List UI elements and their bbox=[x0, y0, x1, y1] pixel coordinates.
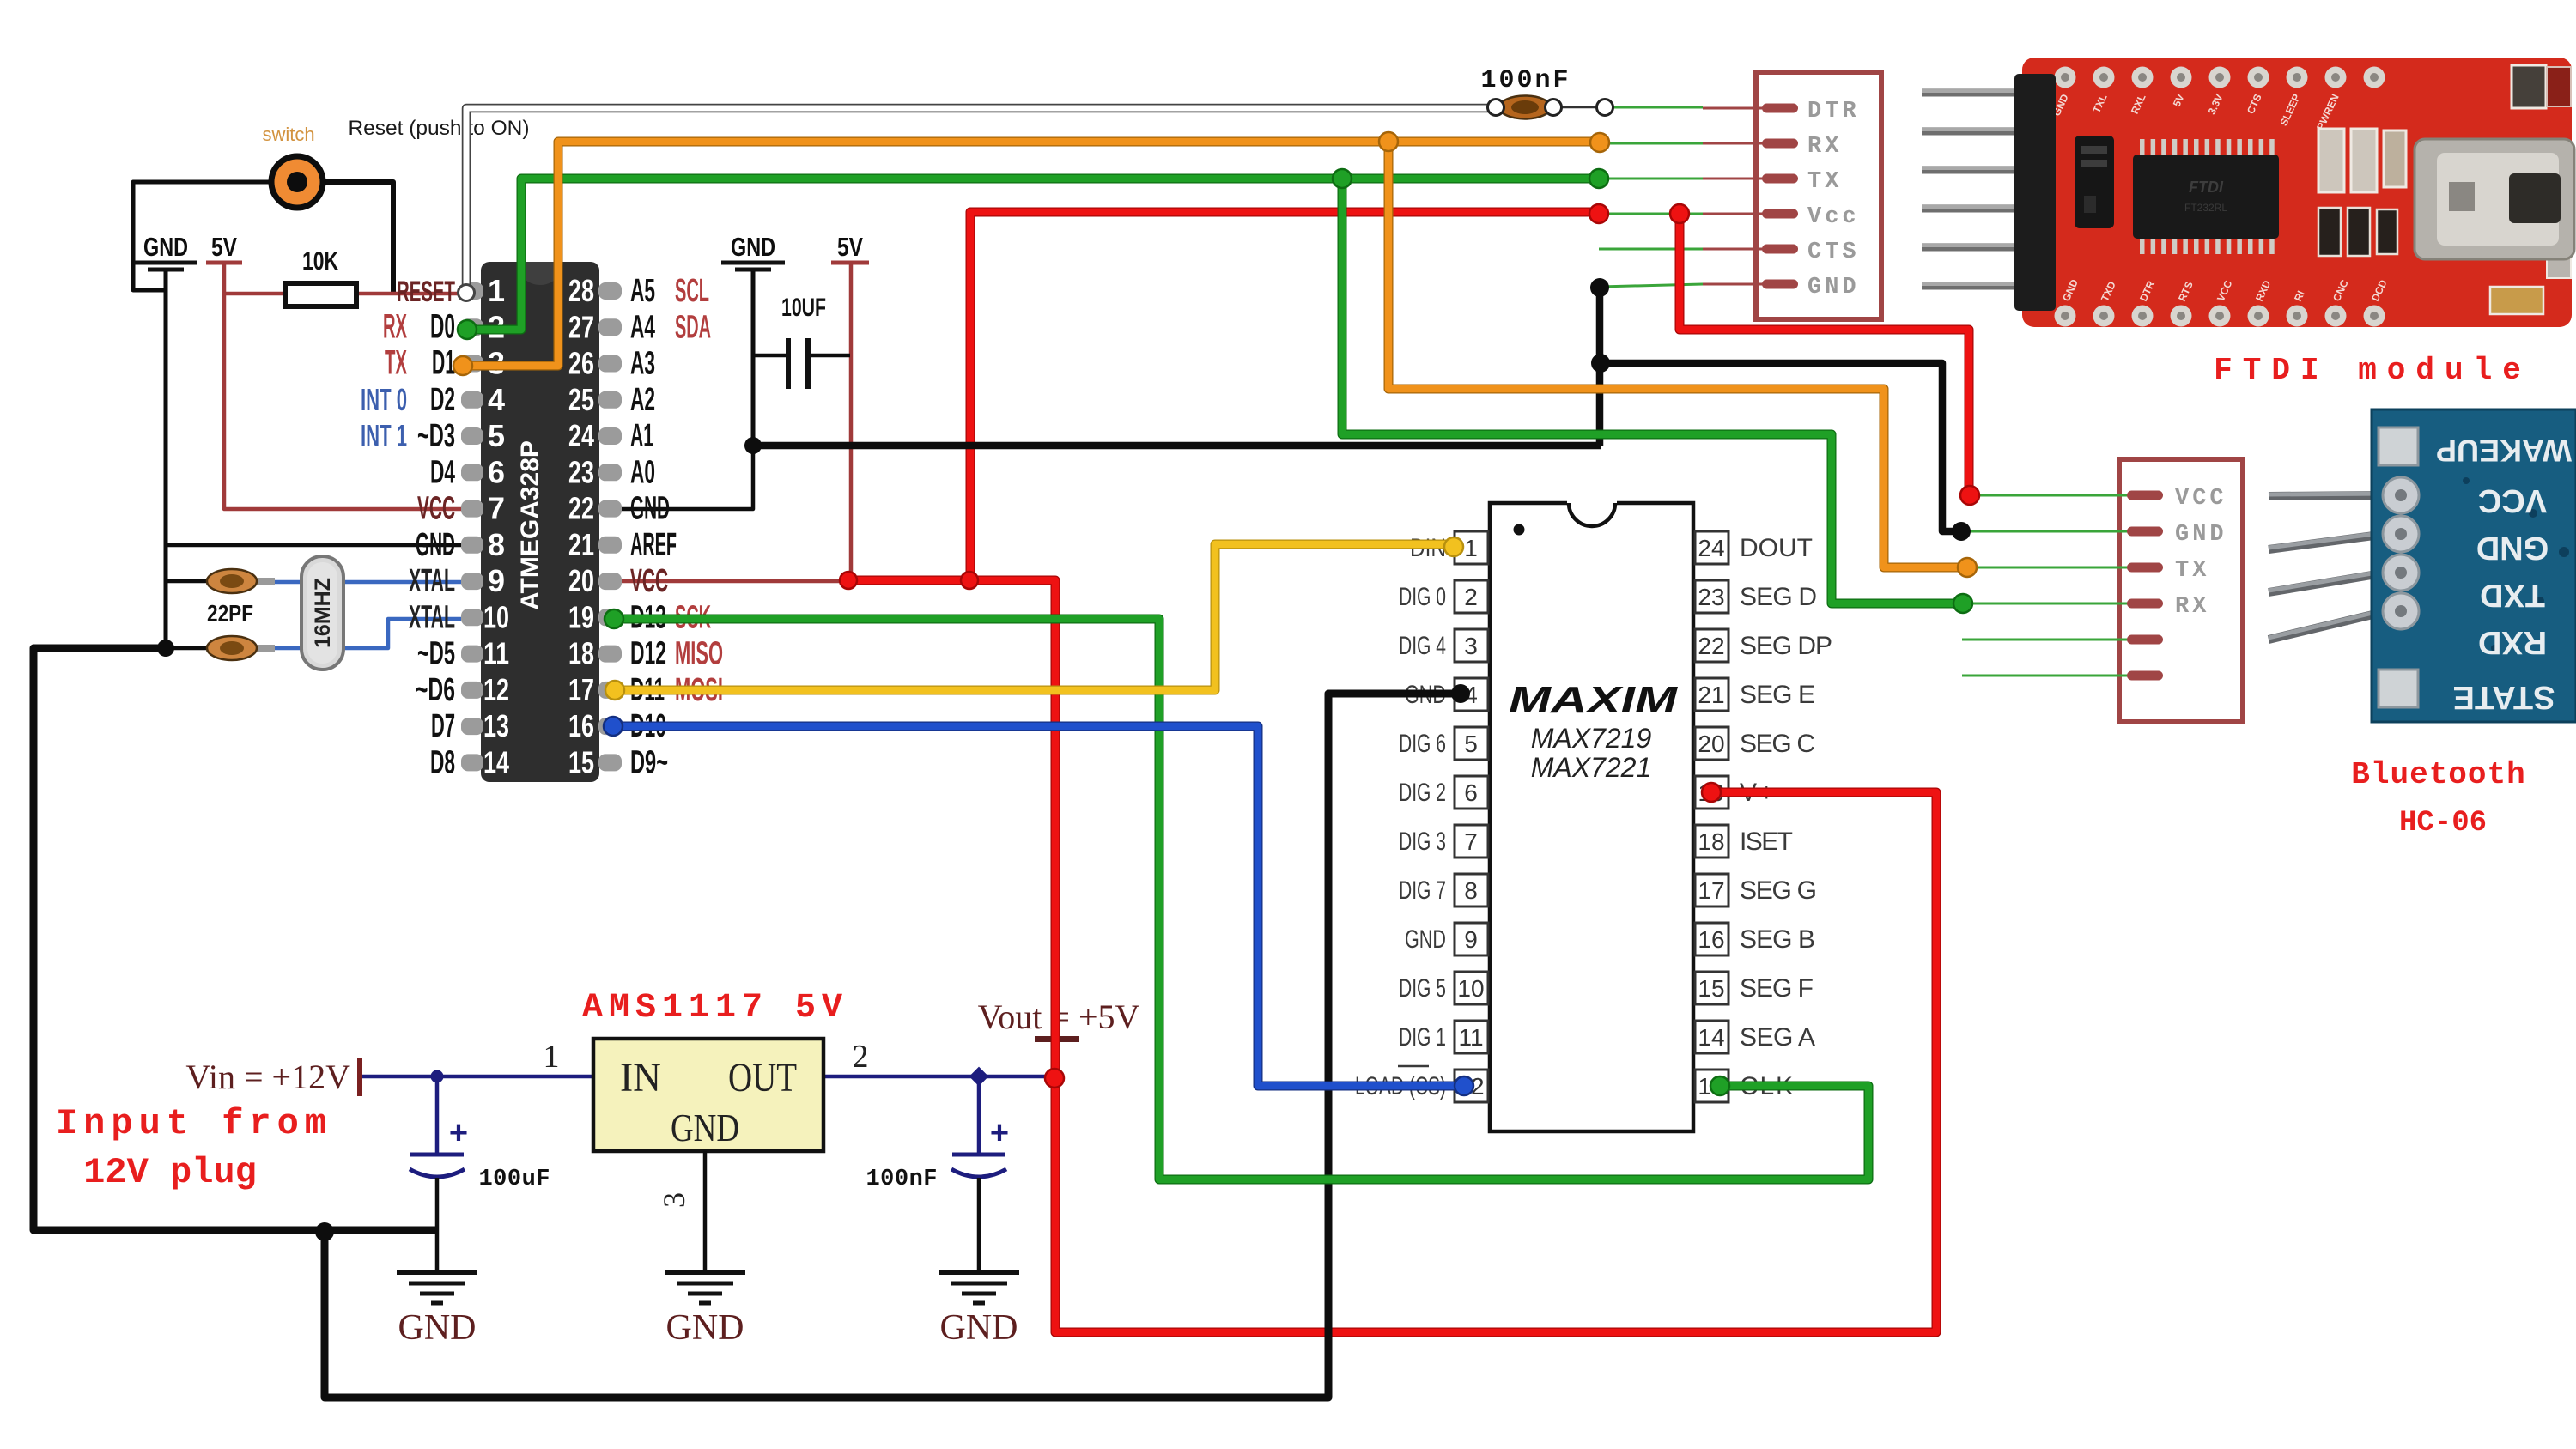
junction: red FTDI branch bbox=[961, 572, 978, 589]
wire: black GND ATMEGA to FTDI GND bbox=[753, 442, 1601, 450]
capacitor C3 10UF bbox=[753, 294, 850, 389]
node: BT VCC red bbox=[1960, 486, 1979, 505]
node: D11 yellow bbox=[605, 681, 624, 700]
Bluetooth header pin stubs bbox=[2127, 491, 2163, 681]
switch S1 (push button) bbox=[271, 156, 323, 208]
svg-text:AREF: AREF bbox=[630, 527, 677, 563]
svg-text:D1: D1 bbox=[432, 344, 455, 382]
svg-text:FT232RL: FT232RL bbox=[2184, 202, 2227, 214]
svg-text:GND: GND bbox=[2476, 530, 2549, 566]
junction: bottom GND node bbox=[315, 1222, 334, 1241]
svg-text:DIG 5: DIG 5 bbox=[1399, 974, 1446, 1003]
FTDI module photo: header pins bbox=[1922, 91, 2031, 286]
svg-text:20: 20 bbox=[568, 563, 594, 598]
svg-text:~D5: ~D5 bbox=[417, 636, 455, 672]
junction: VCC red node bbox=[840, 572, 857, 589]
svg-text:A3: A3 bbox=[630, 346, 655, 382]
ground symbol (100uF) bbox=[397, 1272, 477, 1348]
svg-text:Reset (push to ON): Reset (push to ON) bbox=[348, 117, 529, 140]
node: D13 green bbox=[605, 609, 623, 628]
svg-text:D0: D0 bbox=[430, 307, 455, 345]
svg-text:AMS1117 5V: AMS1117 5V bbox=[582, 989, 848, 1028]
svg-text:15: 15 bbox=[568, 744, 594, 779]
svg-text:GND: GND bbox=[940, 1308, 1018, 1348]
svg-text:DIG 2: DIG 2 bbox=[1399, 779, 1446, 807]
svg-text:7: 7 bbox=[1464, 828, 1478, 855]
node: RESET pin1 white bbox=[459, 285, 475, 301]
svg-text:24: 24 bbox=[1698, 535, 1724, 561]
FTDI module photo: FT232 IC bbox=[2133, 139, 2279, 254]
svg-text:RX: RX bbox=[1807, 134, 1842, 160]
svg-text:INT 1: INT 1 bbox=[361, 418, 407, 453]
FTDI header pin stubs bbox=[1703, 104, 1798, 289]
svg-text:7: 7 bbox=[488, 491, 505, 526]
svg-text:11: 11 bbox=[1458, 1024, 1483, 1051]
svg-text:FTDI: FTDI bbox=[2189, 179, 2224, 196]
svg-text:ATMEGA328P: ATMEGA328P bbox=[516, 440, 544, 610]
ground symbol (100nF) bbox=[939, 1272, 1019, 1348]
svg-text:16: 16 bbox=[568, 708, 594, 743]
capacitor C4 100nF reset line bbox=[1499, 96, 1551, 119]
wire: red VCC junction down to Vout node bbox=[848, 580, 1055, 1076]
svg-text:VCC: VCC bbox=[2478, 482, 2547, 518]
resistor R1 10K bbox=[285, 283, 356, 306]
capacitor C5 100uF bbox=[410, 1076, 550, 1272]
svg-text:TX: TX bbox=[1807, 169, 1842, 195]
svg-text:switch: switch bbox=[262, 124, 314, 145]
IC U2 right pin labels bbox=[1740, 534, 1832, 1100]
wire: white reset wire pin1 to 100nF bbox=[466, 108, 1494, 293]
junction: OUT node diamond bbox=[969, 1067, 989, 1087]
FTDI module photo: jumper block bbox=[2075, 136, 2114, 228]
svg-text:26: 26 bbox=[568, 346, 594, 381]
junction: black GND split bbox=[1591, 354, 1610, 373]
wire: AMS GND pin3 bbox=[703, 1151, 708, 1272]
svg-text:D9~: D9~ bbox=[630, 744, 668, 780]
svg-text:+: + bbox=[449, 1115, 468, 1151]
svg-text:100uF: 100uF bbox=[478, 1167, 550, 1192]
svg-text:CTS: CTS bbox=[1807, 239, 1860, 265]
svg-text:22: 22 bbox=[568, 491, 594, 526]
svg-text:DTR: DTR bbox=[1807, 99, 1860, 124]
svg-text:Input from: Input from bbox=[56, 1103, 332, 1144]
svg-text:VCC: VCC bbox=[417, 491, 455, 527]
svg-text:A4: A4 bbox=[630, 309, 655, 345]
svg-text:6: 6 bbox=[488, 454, 505, 489]
capacitor C1 22PF bbox=[166, 569, 275, 593]
power symbol 5V top left bbox=[206, 232, 242, 263]
svg-text:16MHZ: 16MHZ bbox=[311, 578, 335, 648]
FTDI module photo: mini-USB connector bbox=[2415, 139, 2574, 259]
node: BT TX orange bbox=[1958, 558, 1977, 577]
junction: GND at ATMEGA bbox=[744, 437, 762, 454]
svg-text:RX: RX bbox=[2175, 594, 2209, 620]
svg-text:XTAL: XTAL bbox=[409, 599, 455, 635]
wire: black branch to Bluetooth GND bbox=[1601, 363, 1957, 531]
svg-text:A1: A1 bbox=[630, 418, 653, 454]
svg-text:10UF: 10UF bbox=[781, 294, 826, 322]
junction: Vout red node bbox=[1045, 1069, 1064, 1088]
connector J1 FTDI header box bbox=[1756, 72, 1881, 319]
IC U1 pin stubs bbox=[461, 282, 622, 771]
FTDI module photo: right SMD parts bbox=[2318, 65, 2571, 314]
svg-text:DIG 0: DIG 0 bbox=[1399, 583, 1446, 611]
wire: Vin to IN and OUT rail bbox=[361, 1075, 1053, 1079]
node: BT RX green bbox=[1953, 594, 1972, 613]
svg-text:INT 0: INT 0 bbox=[361, 382, 407, 417]
svg-text:SEG A: SEG A bbox=[1740, 1023, 1815, 1052]
svg-text:5: 5 bbox=[488, 418, 505, 453]
svg-text:GND: GND bbox=[671, 1106, 739, 1149]
svg-text:GND: GND bbox=[1807, 275, 1860, 300]
wire: GND vertical to junction bbox=[751, 271, 756, 446]
svg-text:5V: 5V bbox=[211, 232, 237, 262]
svg-text:RESET: RESET bbox=[397, 276, 455, 308]
svg-text:~D3: ~D3 bbox=[417, 418, 455, 454]
svg-text:D12: D12 bbox=[630, 636, 666, 672]
svg-text:17: 17 bbox=[1698, 877, 1724, 904]
svg-text:D8: D8 bbox=[430, 744, 455, 780]
FTDI header thin green wires bbox=[1599, 107, 1703, 287]
svg-text:D7: D7 bbox=[431, 708, 455, 744]
svg-text:23: 23 bbox=[568, 454, 594, 489]
svg-text:10: 10 bbox=[483, 599, 509, 634]
svg-text:22: 22 bbox=[1698, 633, 1724, 659]
wire: switch right lead down to RESET node bbox=[325, 182, 393, 295]
svg-text:SEG B: SEG B bbox=[1740, 925, 1815, 954]
wire: 5V vertical down to VCC junction bbox=[849, 263, 854, 580]
svg-text:GND: GND bbox=[398, 1308, 477, 1348]
svg-text:5V: 5V bbox=[837, 232, 863, 262]
svg-text:GND: GND bbox=[416, 527, 455, 563]
svg-text:28: 28 bbox=[568, 273, 594, 308]
wire: GND rail vertical left bbox=[164, 271, 168, 648]
svg-text:18: 18 bbox=[1698, 828, 1724, 855]
Vin bar bbox=[357, 1058, 362, 1096]
svg-text:D4: D4 bbox=[430, 454, 455, 490]
svg-text:9: 9 bbox=[488, 563, 505, 598]
svg-text:19: 19 bbox=[568, 599, 594, 634]
svg-text:TXD: TXD bbox=[2480, 577, 2545, 613]
svg-text:18: 18 bbox=[568, 636, 594, 671]
svg-text:STATE: STATE bbox=[2453, 679, 2555, 715]
Bluetooth photo: 4 metal pins bbox=[2269, 494, 2387, 640]
svg-text:A0: A0 bbox=[630, 454, 655, 490]
svg-text:27: 27 bbox=[568, 309, 594, 344]
svg-text:10K: 10K bbox=[302, 247, 338, 276]
Vout bar bbox=[1035, 1036, 1079, 1042]
svg-text:+: + bbox=[990, 1115, 1009, 1151]
node: reset hole 2 bbox=[1546, 100, 1562, 116]
node: D10 blue bbox=[604, 717, 623, 736]
FTDI module photo: red PCB bbox=[2022, 58, 2572, 327]
svg-text:OUT: OUT bbox=[728, 1055, 797, 1100]
svg-text:WAKEUP: WAKEUP bbox=[2436, 433, 2572, 468]
node: D0 green bbox=[458, 320, 477, 339]
svg-text:A5: A5 bbox=[630, 273, 655, 309]
svg-text:15: 15 bbox=[1698, 975, 1724, 1002]
svg-text:IN: IN bbox=[620, 1055, 661, 1100]
svg-text:2: 2 bbox=[1464, 584, 1478, 610]
svg-text:SCL: SCL bbox=[675, 273, 709, 309]
svg-text:MISO: MISO bbox=[675, 636, 723, 672]
wire: blue crystal to XTAL pin10 bbox=[273, 619, 461, 648]
svg-text:100nF: 100nF bbox=[866, 1167, 938, 1192]
wire: VCC pin20 to junction bbox=[622, 579, 848, 584]
regulator U3 AMS1117 bbox=[593, 1039, 823, 1151]
node: FTDI RX orange bbox=[1590, 133, 1609, 152]
svg-text:SEG DP: SEG DP bbox=[1740, 632, 1832, 660]
ground symbol (AMS1117) bbox=[665, 1272, 745, 1348]
node: FTDI Vcc red bbox=[1589, 204, 1608, 223]
svg-text:DIG 7: DIG 7 bbox=[1399, 876, 1446, 905]
connector J2 Bluetooth header box bbox=[2119, 459, 2243, 722]
junction: Vin node bbox=[431, 1070, 444, 1083]
svg-text:GND: GND bbox=[731, 232, 775, 262]
svg-text:13: 13 bbox=[483, 708, 509, 743]
junction: GND left rail bbox=[157, 640, 174, 657]
wire: green SCK D13 to MAX7219 CLK bbox=[614, 619, 1868, 1179]
svg-text:10: 10 bbox=[1457, 975, 1484, 1002]
svg-text:TX: TX bbox=[385, 344, 407, 382]
FTDI module photo: black pin header block bbox=[2014, 74, 2056, 311]
svg-text:3: 3 bbox=[657, 1192, 691, 1208]
node: MAX V+ red bbox=[1702, 783, 1721, 802]
IC U1 left pin labels bbox=[361, 276, 455, 780]
wire: red FTDI Vcc node to Bluetooth VCC bbox=[1680, 214, 1969, 494]
wire: green RX D0 to FTDI TX bbox=[467, 179, 1599, 330]
wire: blue D10 to MAX7219 LOAD bbox=[613, 726, 1464, 1086]
wire: black FTDI GND drop bbox=[1596, 288, 1604, 446]
svg-text:8: 8 bbox=[488, 527, 505, 562]
node: FTDI GND black bbox=[1590, 278, 1609, 297]
svg-text:24: 24 bbox=[568, 418, 594, 453]
svg-text:RX: RX bbox=[383, 307, 407, 345]
svg-text:3: 3 bbox=[1464, 633, 1478, 659]
Bluetooth photo: silk labels rotated 180 bbox=[2436, 433, 2572, 714]
svg-text:MAXIM: MAXIM bbox=[1509, 679, 1679, 721]
svg-text:MAX7221: MAX7221 bbox=[1531, 752, 1652, 783]
svg-text:GND: GND bbox=[666, 1308, 744, 1348]
capacitor C6 100nF bbox=[866, 1076, 1009, 1272]
node: reset hole 1 bbox=[1488, 100, 1504, 116]
svg-text:SEG E: SEG E bbox=[1740, 681, 1815, 709]
wire: 100nF to DTR node bbox=[1553, 106, 1605, 109]
svg-text:2: 2 bbox=[853, 1039, 869, 1075]
ground symbol GND top middle bbox=[721, 232, 785, 270]
svg-text:VCC: VCC bbox=[630, 563, 668, 599]
node: FTDI TX green bbox=[1589, 169, 1608, 188]
svg-text:D2: D2 bbox=[430, 382, 455, 418]
svg-text:SEG G: SEG G bbox=[1740, 876, 1817, 905]
svg-text:12: 12 bbox=[483, 672, 509, 707]
svg-text:22PF: 22PF bbox=[207, 600, 253, 627]
svg-text:4: 4 bbox=[488, 382, 505, 417]
power symbol 5V top middle bbox=[831, 232, 869, 263]
wire: green branch to Bluetooth RX bbox=[1342, 179, 1962, 603]
svg-text:SEG F: SEG F bbox=[1740, 974, 1814, 1003]
svg-text:SDA: SDA bbox=[675, 309, 711, 345]
wire: GND pin8 link bbox=[166, 543, 461, 548]
wire: red VCC up to FTDI Vcc bbox=[970, 212, 1599, 580]
svg-text:GND: GND bbox=[143, 232, 188, 262]
IC U1 ATMEGA328P body bbox=[481, 262, 599, 782]
svg-text:DIG 4: DIG 4 bbox=[1399, 632, 1446, 660]
svg-text:DIG 3: DIG 3 bbox=[1399, 828, 1446, 856]
IC U1 pin numbers bbox=[483, 273, 594, 779]
wire: blue crystal to XTAL pin9 bbox=[273, 580, 461, 585]
svg-text:100nF: 100nF bbox=[1480, 66, 1571, 95]
ground symbol GND top left bbox=[134, 232, 197, 270]
svg-text:MAX7219: MAX7219 bbox=[1531, 723, 1652, 754]
IC U2 left pin labels bbox=[1355, 534, 1446, 1100]
wire: thick black GND to 12V input bbox=[33, 648, 437, 1230]
svg-text:TX: TX bbox=[2175, 558, 2209, 584]
svg-text:DIG 1: DIG 1 bbox=[1399, 1023, 1446, 1052]
svg-text:GND: GND bbox=[2175, 522, 2227, 548]
svg-text:VCC: VCC bbox=[2175, 486, 2227, 512]
svg-text:GND: GND bbox=[1405, 925, 1446, 954]
svg-text:6: 6 bbox=[1464, 779, 1478, 806]
Bluetooth photo: blue PCB bbox=[2372, 409, 2576, 722]
svg-text:SEG D: SEG D bbox=[1740, 583, 1817, 611]
IC U1 right pin labels bbox=[630, 273, 723, 780]
svg-text:FTDI module: FTDI module bbox=[2214, 353, 2531, 388]
node: MAX LOAD blue bbox=[1455, 1076, 1473, 1095]
svg-text:14: 14 bbox=[483, 744, 509, 779]
wire: orange branch to Bluetooth TX bbox=[1388, 142, 1966, 567]
svg-text:25: 25 bbox=[568, 382, 594, 417]
svg-text:17: 17 bbox=[568, 672, 594, 707]
junction: orange split bbox=[1379, 132, 1398, 151]
IC U2 MAX7219 body bbox=[1490, 500, 1693, 1131]
junction: red drop to BT bbox=[1670, 204, 1689, 223]
svg-text:XTAL: XTAL bbox=[409, 563, 455, 599]
svg-text:8: 8 bbox=[1464, 877, 1478, 904]
svg-text:GND: GND bbox=[630, 491, 670, 527]
wire: red Vout loop to MAX7219 V+ bbox=[1055, 792, 1936, 1332]
wire: 5V rail vertical down to VCC pin7 bbox=[224, 263, 461, 509]
svg-text:Vin = +12V: Vin = +12V bbox=[185, 1058, 350, 1096]
svg-text:Bluetooth: Bluetooth bbox=[2351, 757, 2525, 792]
svg-text:23: 23 bbox=[1698, 584, 1724, 610]
crystal X1 16MHZ bbox=[301, 556, 343, 670]
wire: switch left lead to GND rail bbox=[133, 182, 270, 290]
svg-text:HC-06: HC-06 bbox=[2399, 807, 2487, 840]
node: MAX GND black bbox=[1451, 684, 1470, 703]
svg-text:DOUT: DOUT bbox=[1740, 534, 1813, 562]
wire: resistor R1 to RESET pin bbox=[356, 292, 462, 296]
wire: 5V branch to resistor R1 bbox=[224, 292, 285, 296]
svg-text:1: 1 bbox=[1464, 535, 1478, 561]
IC U2 pin boxes and numbers bbox=[1455, 531, 1728, 1102]
svg-text:20: 20 bbox=[1698, 731, 1724, 757]
capacitor C2 22PF bbox=[166, 636, 275, 660]
svg-text:21: 21 bbox=[1698, 682, 1724, 708]
svg-text:ISET: ISET bbox=[1740, 828, 1793, 856]
svg-text:~D6: ~D6 bbox=[416, 672, 455, 708]
svg-text:SEG C: SEG C bbox=[1740, 730, 1815, 758]
node: MAX DIN yellow bbox=[1444, 537, 1463, 556]
node: BT GND black bbox=[1952, 522, 1971, 541]
wire: GND junction down to pin22 bbox=[622, 446, 753, 509]
svg-text:21: 21 bbox=[568, 527, 594, 562]
svg-text:DIG 6: DIG 6 bbox=[1399, 730, 1446, 758]
svg-text:12V plug: 12V plug bbox=[83, 1152, 257, 1193]
node: reset hole 3 bbox=[1597, 100, 1613, 116]
svg-text:Vcc: Vcc bbox=[1807, 204, 1860, 230]
svg-text:9: 9 bbox=[1464, 926, 1478, 953]
Bluetooth header thin green wires bbox=[1962, 495, 2129, 676]
svg-text:1: 1 bbox=[488, 273, 505, 308]
wire: black bottom rail to MAX7219 GND pin4 bbox=[325, 694, 1460, 1397]
wire: yellow MOSI D11 to MAX7219 DIN bbox=[615, 544, 1454, 690]
svg-text:5: 5 bbox=[1464, 731, 1478, 757]
svg-text:A2: A2 bbox=[630, 382, 655, 418]
node: MAX CLK green bbox=[1710, 1076, 1729, 1095]
wire: orange TX D1 to FTDI RX bbox=[463, 142, 1600, 366]
svg-text:16: 16 bbox=[1698, 926, 1724, 953]
svg-text:RXD: RXD bbox=[2478, 624, 2547, 660]
node: D1 orange bbox=[453, 356, 472, 375]
junction: green split bbox=[1333, 169, 1352, 188]
svg-text:14: 14 bbox=[1698, 1024, 1724, 1051]
svg-text:1: 1 bbox=[544, 1039, 560, 1075]
svg-text:11: 11 bbox=[483, 636, 509, 671]
